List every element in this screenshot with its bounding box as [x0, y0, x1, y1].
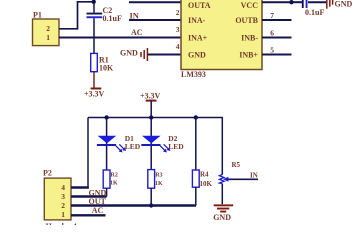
svg-text:4: 4	[176, 42, 180, 51]
svg-text:10K: 10K	[99, 64, 114, 73]
svg-text:GND: GND	[335, 0, 353, 8]
svg-text:R5: R5	[232, 161, 241, 169]
svg-text:0.1uF: 0.1uF	[103, 14, 122, 23]
svg-text:10K: 10K	[200, 180, 213, 188]
svg-text:OUT: OUT	[89, 197, 107, 206]
svg-text:R4: R4	[200, 170, 209, 178]
svg-text:GND: GND	[188, 51, 206, 60]
svg-text:LED: LED	[168, 142, 184, 151]
svg-text:Header 4: Header 4	[46, 222, 77, 225]
svg-text:+3.3V: +3.3V	[140, 92, 161, 101]
svg-text:+3.3V: +3.3V	[84, 89, 105, 98]
svg-text:GND: GND	[120, 49, 138, 58]
svg-text:2: 2	[61, 201, 65, 210]
svg-text:LED: LED	[125, 142, 141, 151]
svg-text:2: 2	[46, 24, 50, 33]
svg-text:GND: GND	[213, 213, 231, 222]
svg-text:3: 3	[61, 192, 65, 201]
svg-text:OUTA: OUTA	[188, 1, 211, 10]
svg-text:R2: R2	[111, 172, 118, 178]
svg-text:INB-: INB-	[241, 34, 258, 43]
svg-text:6: 6	[270, 29, 274, 38]
svg-text:VCC: VCC	[241, 1, 259, 10]
svg-text:4: 4	[61, 183, 65, 192]
svg-text:1K: 1K	[155, 181, 163, 187]
svg-text:P1: P1	[33, 11, 42, 20]
svg-text:IN: IN	[130, 11, 140, 21]
svg-text:AC: AC	[131, 28, 143, 37]
svg-text:INA+: INA+	[188, 34, 208, 43]
svg-text:3: 3	[176, 25, 180, 34]
svg-text:INA-: INA-	[188, 16, 206, 25]
svg-text:AC: AC	[92, 206, 104, 215]
svg-text:P2: P2	[43, 169, 52, 178]
svg-text:2: 2	[176, 8, 180, 17]
svg-text:LM393: LM393	[181, 70, 206, 79]
svg-text:IN: IN	[250, 171, 258, 179]
svg-text:1: 1	[46, 33, 50, 42]
svg-text:OUTB: OUTB	[235, 16, 258, 25]
svg-text:1K: 1K	[110, 181, 118, 187]
svg-text:INB+: INB+	[239, 51, 258, 60]
svg-text:5: 5	[270, 46, 274, 55]
svg-text:1: 1	[61, 210, 65, 219]
svg-text:7: 7	[270, 11, 274, 20]
svg-text:R3: R3	[155, 172, 162, 178]
svg-text:0.1uF: 0.1uF	[305, 8, 324, 17]
svg-text:GND: GND	[89, 188, 107, 197]
